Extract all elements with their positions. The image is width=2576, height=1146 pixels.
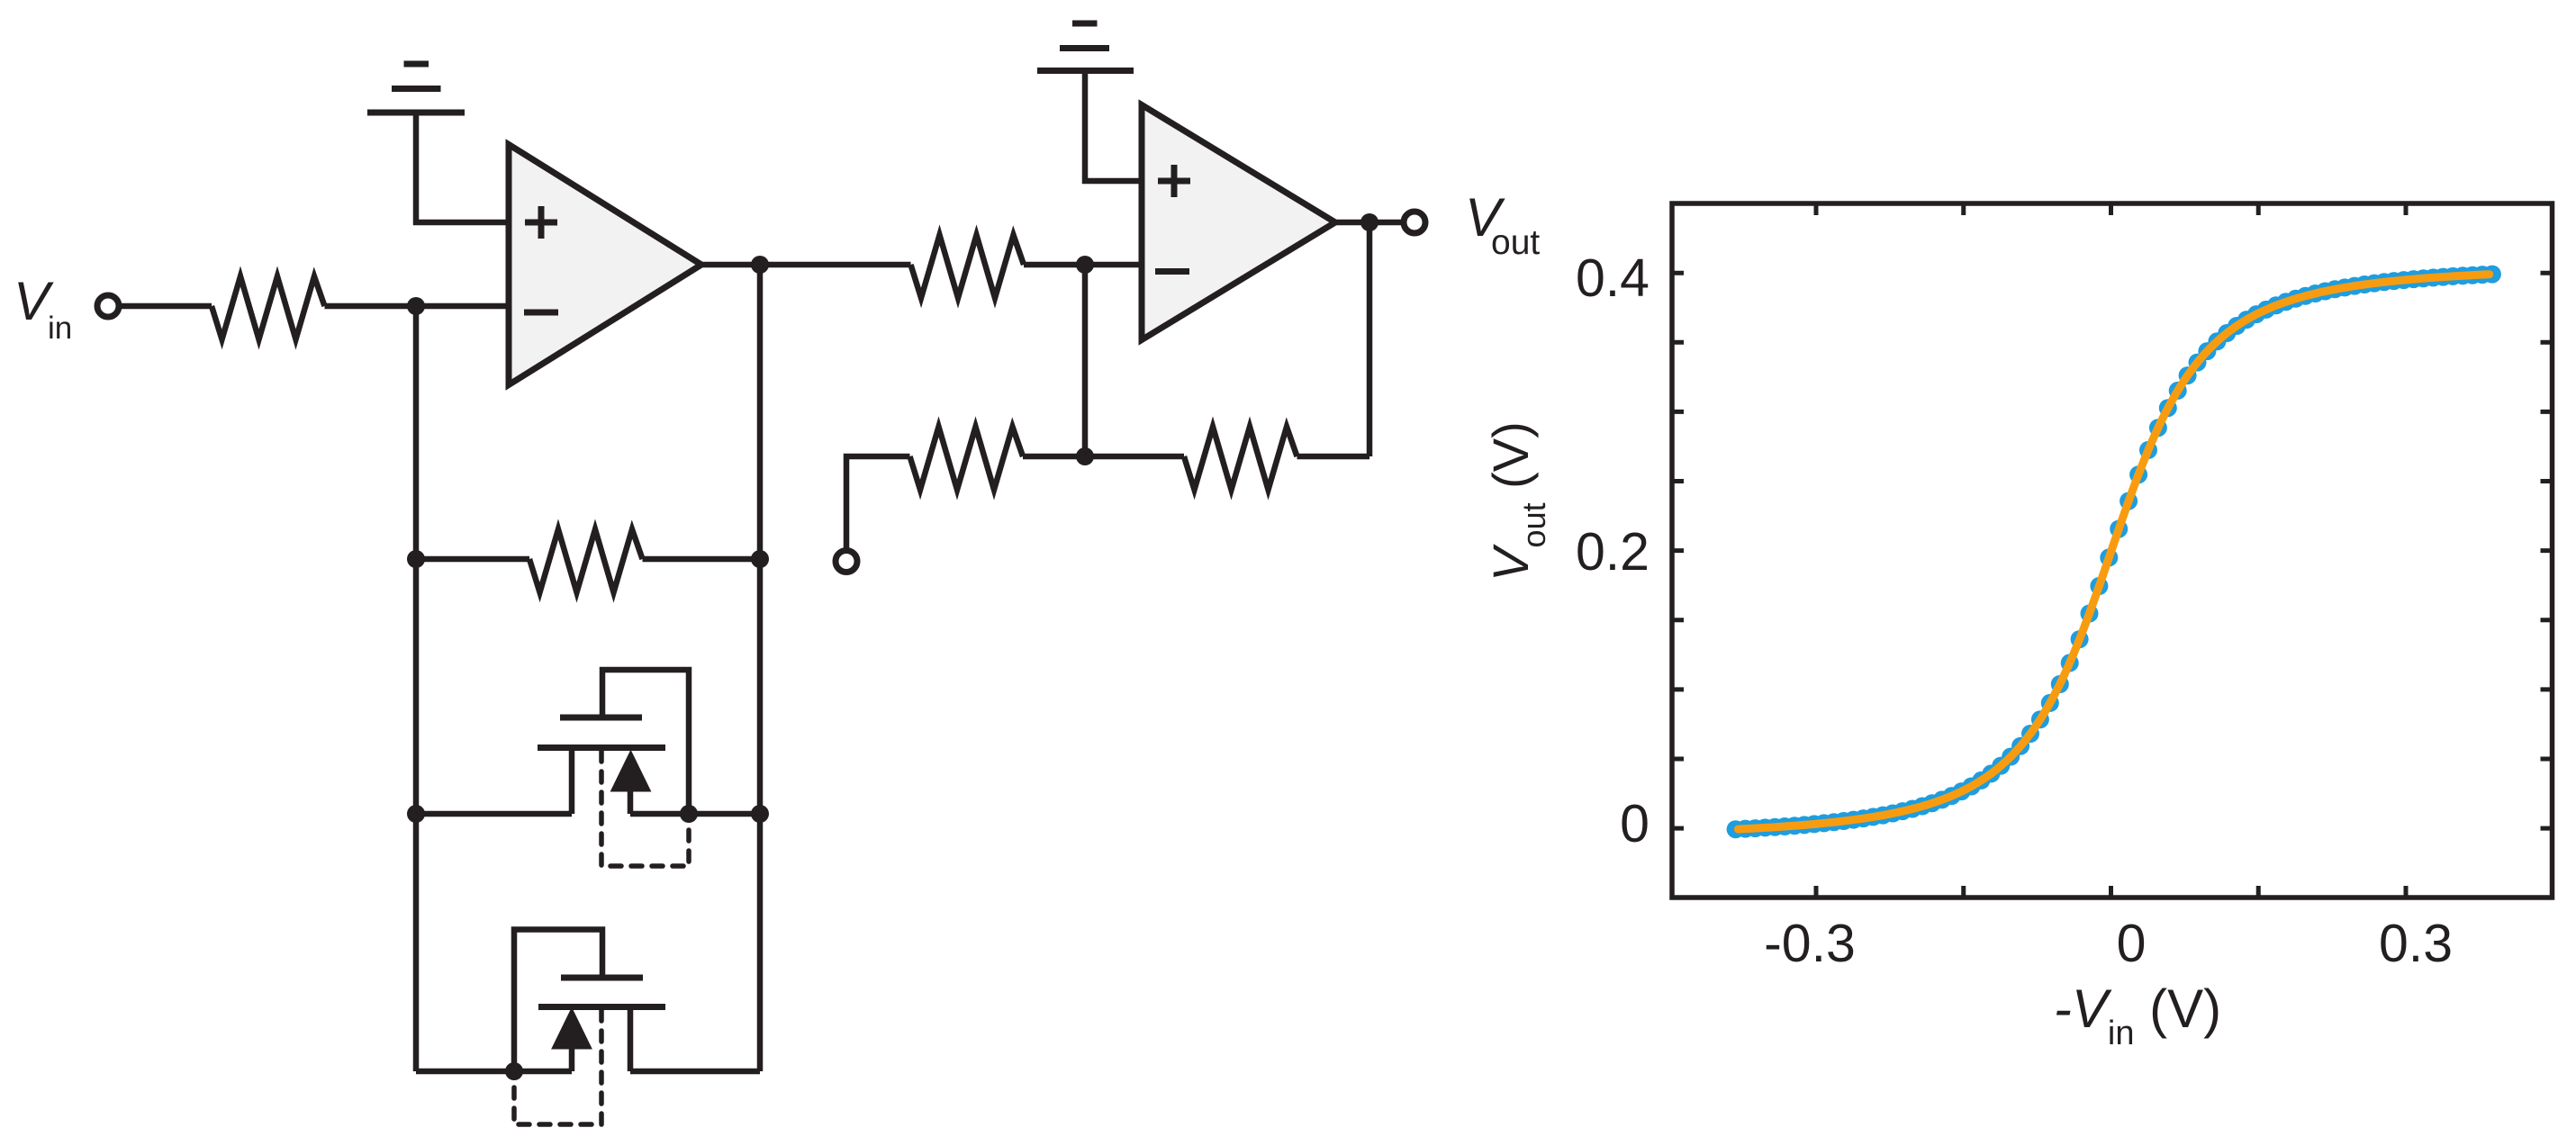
svg-text:0.3: 0.3: [2379, 914, 2453, 973]
svg-text:out: out: [1491, 223, 1540, 262]
svg-text:-Vin (V): -Vin (V): [2054, 979, 2221, 1052]
svg-text:0: 0: [2117, 914, 2147, 973]
svg-text:in: in: [48, 311, 72, 346]
svg-text:0.4: 0.4: [1576, 248, 1650, 308]
svg-text:0.2: 0.2: [1576, 522, 1650, 582]
svg-text:0: 0: [1620, 794, 1650, 853]
svg-text:-0.3: -0.3: [1764, 914, 1856, 973]
svg-text:Vout (V): Vout (V): [1482, 421, 1552, 582]
